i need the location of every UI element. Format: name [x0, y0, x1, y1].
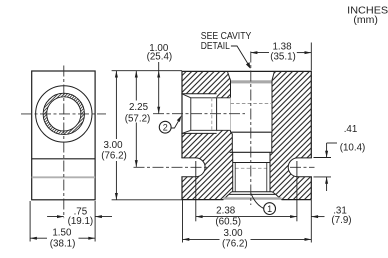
left mounting slot white: [181, 158, 205, 177]
dim 2.38 extension right: [296, 161, 298, 221]
left view ext right: [94, 201, 96, 242]
top bore gray seat band: [231, 80, 273, 83]
top edge extension line: [112, 70, 182, 72]
seat step connector right: [272, 192, 276, 195]
bottom gray seat band: [223, 197, 281, 199]
svg-text:1.50: 1.50: [52, 228, 72, 239]
top bore left wall lower: [230, 130, 232, 132]
svg-text:(10.4): (10.4): [340, 142, 366, 153]
thread ring outer circle: [43, 93, 84, 134]
bottom edge extension line: [112, 199, 182, 201]
port chamfer bottom: [182, 130, 191, 133]
svg-text:(60.5): (60.5): [215, 217, 241, 228]
left view inner edge line: [32, 158, 95, 160]
lower bore hidden dashed line: [235, 167, 267, 169]
lower bore top line: [233, 162, 270, 164]
lower bore inner wall left: [234, 163, 236, 192]
balloon 2: [159, 121, 171, 133]
block bottom edge: [182, 199, 311, 201]
bottom flare chamfer right: [276, 194, 282, 199]
dim 2.38 extension left: [195, 161, 197, 221]
mid band left wall: [231, 132, 233, 152]
right mounting slot white: [288, 158, 312, 177]
dim .41 ext top: [314, 157, 332, 159]
left view ext left: [29, 201, 31, 242]
main cavity bore white: [223, 72, 281, 200]
lower bore left wall: [232, 152, 234, 191]
seat line 2: [229, 193, 276, 195]
svg-text:(35.1): (35.1): [270, 51, 296, 62]
dim 3.00 bottom line: [183, 238, 312, 240]
top bore chamfer left: [228, 72, 231, 80]
right slot centerline: [290, 166, 315, 168]
horizontal centerline: [21, 113, 106, 115]
dim 2.38 text: [214, 206, 238, 215]
dim 1.00 vertical line: [158, 62, 160, 114]
svg-text:(76.2): (76.2): [101, 150, 127, 161]
lower bore right wall: [269, 152, 271, 191]
block top edge (continuous across mouth): [182, 70, 311, 72]
svg-text:.41: .41: [344, 124, 358, 135]
dim 3.00 left text: [99, 139, 129, 161]
left view gray edge line: [32, 176, 95, 178]
svg-text:DETAIL: DETAIL: [201, 41, 230, 52]
port hidden dashed vertical: [211, 98, 213, 131]
dim 1.38 extension right: [310, 43, 312, 71]
shoulder line: [231, 131, 273, 133]
svg-text:(38.1): (38.1): [50, 238, 76, 249]
bottom flare chamfer left: [223, 194, 228, 199]
dim .41 arrows: [326, 143, 328, 191]
dim .41 ext bottom: [314, 176, 332, 178]
svg-text:3.00: 3.00: [223, 228, 243, 239]
thread ring annulus: [43, 93, 84, 134]
svg-text:2: 2: [163, 123, 168, 133]
dim 3.00 bottom ext right: [310, 200, 312, 243]
svg-text:(7.9): (7.9): [331, 215, 351, 226]
balloon 1: [264, 203, 276, 215]
top bore right wall: [271, 80, 273, 132]
hatched block body: [182, 71, 311, 200]
dim 2.25 vertical line: [135, 71, 137, 167]
vertical centerline: [63, 66, 65, 219]
port centerline: [153, 113, 245, 115]
left slot outline: [181, 158, 205, 177]
port outline: [181, 94, 216, 134]
svg-text:(57.2): (57.2): [125, 113, 151, 124]
dim 3.00 left vertical line: [115, 71, 117, 200]
balloon 2 leader: [171, 119, 180, 129]
lower bore inner wall right: [266, 163, 268, 192]
thread ring inner circle: [47, 97, 81, 131]
svg-text:2.25: 2.25: [129, 102, 149, 113]
dim 2.38 line: [196, 216, 297, 218]
port inner top line: [191, 97, 230, 99]
svg-text:(19.1): (19.1): [68, 216, 94, 227]
hidden thread line in top bore: [231, 103, 273, 105]
left slot centerline: [134, 166, 209, 168]
dim 1.38 line: [251, 52, 269, 54]
seat line 1: [232, 191, 273, 193]
top bore left wall upper: [230, 80, 232, 98]
port thread start vertical: [190, 98, 192, 131]
see cavity leader: [231, 46, 249, 66]
balloon 1 leader: [251, 194, 264, 209]
svg-text:1: 1: [267, 204, 272, 214]
svg-text:(mm): (mm): [353, 14, 378, 26]
side port white: [181, 94, 230, 134]
top bore left wall hidden (behind port): [230, 98, 232, 131]
right slot outline: [288, 158, 312, 177]
counterbore circle: [36, 86, 92, 142]
dim .75 arrows: [47, 216, 64, 218]
seat step connector left: [229, 192, 232, 195]
left view outline: [32, 71, 95, 200]
svg-text:(25.4): (25.4): [147, 52, 173, 63]
bore vertical centerline: [250, 52, 252, 206]
dim .31 arrow: [311, 216, 324, 218]
dim 3.00 bottom ext left: [182, 200, 184, 243]
block outline left/right edges: [182, 71, 311, 200]
step face line: [230, 151, 273, 153]
svg-text:2.38: 2.38: [216, 206, 236, 217]
port chamfer top: [182, 94, 191, 98]
top bore chamfer right: [272, 72, 274, 80]
dim 2.25 text: [122, 101, 152, 123]
svg-text:(76.2): (76.2): [222, 239, 248, 250]
mid band right wall: [271, 132, 273, 152]
port inner bottom line: [191, 129, 230, 131]
dim 1.50 line: [30, 237, 95, 239]
